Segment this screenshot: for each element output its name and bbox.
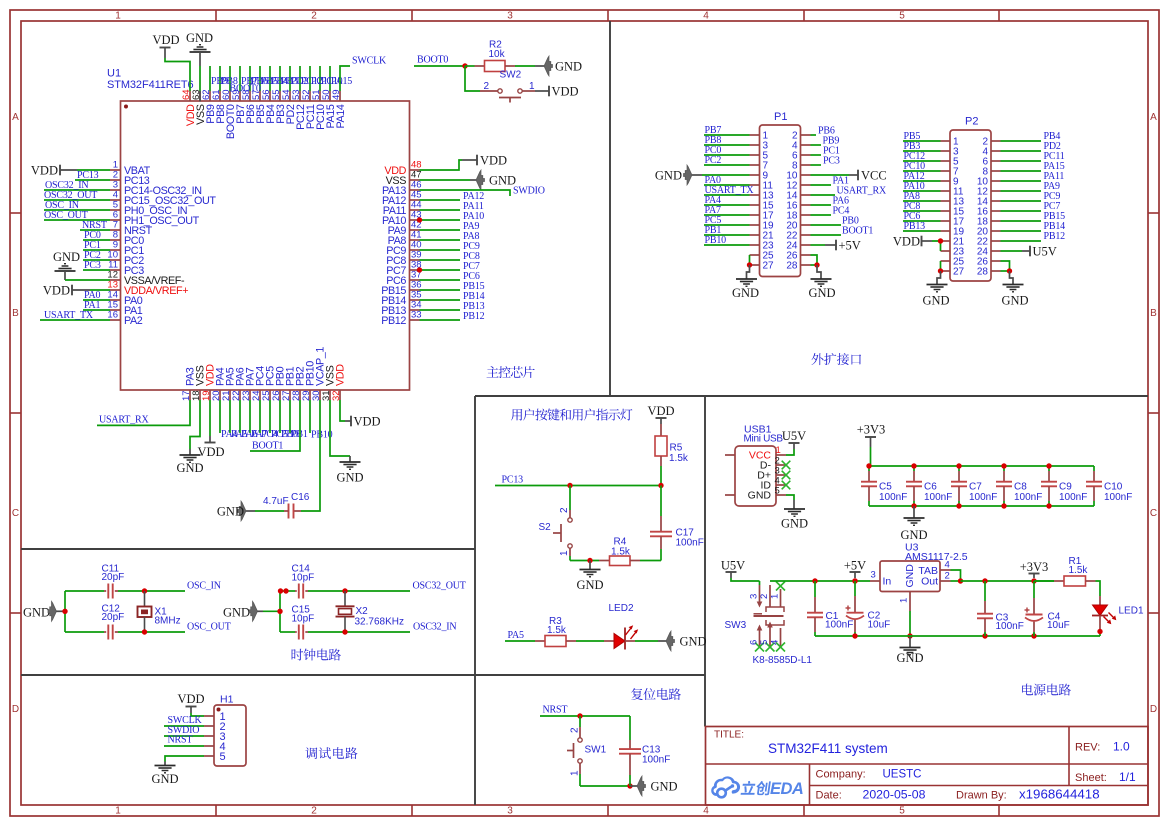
P1 left wires and net labels — [704, 125, 754, 246]
power port VDD at U1 pin32 — [340, 400, 381, 429]
resistor R1 1.5k — [1034, 556, 1096, 586]
svg-text:5: 5 — [220, 751, 226, 763]
svg-text:GND: GND — [223, 606, 250, 620]
net label OSC_OUT / wire — [44, 210, 110, 221]
wire TAB to Out — [951, 570, 964, 584]
svg-text:100nF: 100nF — [924, 492, 952, 503]
svg-text:R5: R5 — [670, 443, 683, 454]
svg-text:VDD: VDD — [335, 364, 347, 386]
P2 right wires and net labels — [1001, 131, 1066, 242]
svg-text:1: 1 — [770, 594, 781, 599]
wire GND bottom rail — [815, 633, 1100, 638]
svg-text:PC2: PC2 — [705, 155, 722, 166]
svg-text:GND: GND — [23, 606, 50, 620]
capacitor C12 20pF — [65, 604, 124, 640]
wire VDD pin1 — [77, 169, 110, 171]
wire SW1 to GND rail — [580, 783, 633, 788]
net label PA1 / wire — [83, 300, 110, 311]
ground symbol below S2 — [576, 561, 603, 593]
op-amp U1 STM32F411RET6 main MCU body — [107, 68, 410, 391]
svg-text:VDD: VDD — [31, 164, 58, 178]
net label OSC32_IN / wire — [44, 180, 110, 191]
ground flag right of R2 — [544, 56, 582, 76]
svg-text:49: 49 — [331, 89, 342, 100]
svg-text:VDD: VDD — [480, 154, 507, 168]
net label PA0 / wire — [83, 290, 110, 301]
svg-text:3: 3 — [871, 570, 876, 581]
svg-text:K8-8585D-L1: K8-8585D-L1 — [753, 655, 813, 666]
svg-text:+3V3: +3V3 — [857, 423, 886, 437]
ground symbol below H1 — [151, 762, 178, 787]
wire P2 pins 25/27 to ground — [938, 261, 943, 274]
wire R3 to LED2 — [576, 640, 604, 642]
svg-text:D: D — [12, 704, 19, 715]
svg-text:1.0: 1.0 — [1113, 740, 1130, 754]
svg-text:A: A — [12, 112, 19, 123]
svg-text:NRST: NRST — [543, 705, 568, 716]
net label SWDIO / wire H1 pin3 — [164, 725, 204, 736]
svg-text:+5V: +5V — [839, 239, 861, 253]
svg-text:U5V: U5V — [1033, 245, 1057, 259]
svg-text:100nF: 100nF — [969, 492, 997, 503]
svg-text:1: 1 — [529, 81, 535, 92]
svg-text:3: 3 — [749, 594, 760, 599]
svg-text:GND: GND — [576, 578, 603, 592]
ground symbol below C6 — [900, 506, 927, 542]
wire C11 to X1 / net label OSC_IN — [118, 581, 221, 594]
svg-text:STM32F411RET6: STM32F411RET6 — [107, 79, 194, 91]
svg-text:8MHz: 8MHz — [155, 616, 181, 627]
svg-text:5: 5 — [759, 640, 770, 645]
svg-text:1.5k: 1.5k — [1069, 565, 1089, 576]
svg-text:PC3: PC3 — [823, 156, 840, 167]
net label OSC_IN / wire — [44, 200, 110, 211]
regulator U3 AMS1117-2.5 — [870, 542, 968, 612]
U1 top pins 64-49 — [181, 89, 347, 139]
junction on PA10 pin43 — [417, 217, 422, 222]
ground symbol below U3 — [896, 636, 923, 665]
svg-text:2: 2 — [759, 594, 770, 599]
svg-text:GND: GND — [176, 461, 203, 475]
power port VDD at P2 pins 21/23 — [893, 235, 943, 252]
svg-text:OSC32_IN: OSC32_IN — [413, 622, 456, 633]
wire X1 left rail — [62, 591, 67, 632]
ground symbol at U1 pin31 — [330, 400, 364, 485]
svg-text:C8: C8 — [1014, 482, 1027, 493]
power port VDD at U1 pin64 — [152, 33, 179, 58]
svg-text:OSC_IN: OSC_IN — [187, 581, 221, 592]
no-connect X marks on USB1 pins 2-4 — [782, 461, 791, 490]
svg-text:1/1: 1/1 — [1119, 770, 1136, 784]
connector H1 debug header — [204, 694, 246, 767]
power port VDD at H1 pin1 — [177, 692, 204, 713]
section title 外扩接口 — [812, 353, 862, 365]
svg-text:16: 16 — [107, 310, 118, 321]
svg-text:10uF: 10uF — [868, 620, 891, 631]
svg-text:B: B — [12, 308, 19, 319]
capacitor C4 10uF polarized — [1025, 581, 1070, 636]
svg-text:2: 2 — [311, 805, 317, 816]
svg-text:PA15: PA15 — [331, 76, 352, 87]
ground flag at C16 — [217, 501, 255, 521]
svg-text:TITLE:: TITLE: — [714, 730, 744, 741]
svg-text:28: 28 — [786, 261, 798, 272]
svg-text:STM32F411 system: STM32F411 system — [768, 741, 888, 756]
svg-text:2020-05-08: 2020-05-08 — [863, 788, 926, 802]
ground flag right of C13 — [630, 776, 678, 796]
net label PC13 / wire — [75, 170, 110, 181]
svg-text:PA2: PA2 — [124, 315, 143, 327]
capacitor C10 100nF — [1086, 471, 1132, 503]
svg-text:NRST: NRST — [168, 735, 193, 746]
ground symbol at U1 pin12 — [53, 250, 80, 280]
svg-text:GND: GND — [904, 564, 916, 588]
svg-text:C7: C7 — [969, 482, 982, 493]
crystal X1 8MHz — [138, 591, 181, 632]
svg-text:10pF: 10pF — [292, 573, 315, 584]
svg-text:U1: U1 — [107, 68, 121, 80]
switch SW3 K8-8585D-L1 power switch — [725, 581, 813, 666]
capacitor C9 100nF — [1041, 466, 1087, 506]
net label PA5 / wire — [505, 630, 535, 641]
svg-text:GND: GND — [781, 517, 808, 531]
svg-text:REV:: REV: — [1075, 742, 1100, 754]
ground flag at U1 pin47 — [420, 170, 517, 190]
ground flag right of LED2 — [666, 631, 707, 651]
svg-text:Sheet:: Sheet: — [1075, 772, 1107, 784]
power port VDD at U1 pin48 — [420, 154, 508, 171]
svg-text:2: 2 — [570, 727, 581, 733]
svg-text:10pF: 10pF — [292, 614, 315, 625]
svg-text:C9: C9 — [1059, 482, 1072, 493]
net label BOOT1 / wire pin28 — [250, 400, 300, 452]
svg-text:+5V: +5V — [844, 559, 866, 573]
U1 left pins 1-16 — [107, 160, 216, 328]
svg-text:Mini USB: Mini USB — [744, 434, 784, 445]
svg-text:C5: C5 — [879, 482, 892, 493]
connector P1 body — [760, 111, 801, 277]
power port U5V at P2 pin24 — [1001, 245, 1057, 259]
svg-text:VDD: VDD — [177, 692, 204, 706]
crystal X2 32.768KHz — [336, 591, 404, 632]
ground symbol below P2 right — [1001, 271, 1028, 308]
svg-text:C16: C16 — [291, 492, 310, 503]
svg-text:VDD: VDD — [647, 404, 674, 418]
svg-text:GND: GND — [680, 635, 707, 649]
section title 电源电路 — [1022, 684, 1071, 696]
svg-text:EDA: EDA — [770, 780, 803, 798]
ground symbol below P1 right — [808, 265, 835, 300]
svg-text:2: 2 — [484, 81, 490, 92]
svg-text:Out: Out — [921, 576, 938, 588]
junction on PC7 pin38 — [417, 267, 422, 272]
svg-text:4: 4 — [945, 560, 950, 571]
svg-text:VDD: VDD — [354, 415, 381, 429]
capacitor C14 10pF — [278, 564, 314, 599]
wire R4 to C17 — [640, 560, 661, 562]
wires U1 top pins 62-50 — [210, 66, 330, 91]
connector P2 body — [950, 116, 991, 282]
LED1 red power indicator — [1092, 596, 1144, 629]
capacitor C7 100nF — [951, 466, 997, 506]
svg-text:100nF: 100nF — [879, 492, 907, 503]
svg-text:1.5k: 1.5k — [547, 625, 567, 636]
resistor R3 1.5k — [535, 616, 576, 647]
svg-text:100nF: 100nF — [996, 621, 1024, 632]
svg-text:2: 2 — [311, 10, 317, 21]
svg-text:10k: 10k — [489, 49, 506, 60]
svg-text:2: 2 — [945, 571, 950, 582]
svg-text:3: 3 — [507, 10, 513, 21]
svg-text:A: A — [1150, 112, 1157, 123]
svg-text:32: 32 — [331, 390, 342, 401]
P1 right wires and net labels — [811, 126, 887, 237]
svg-text:1: 1 — [115, 805, 121, 816]
wire VSS pin63 — [199, 66, 201, 102]
section title 复位电路 — [631, 688, 681, 700]
capacitor C15 10pF — [280, 605, 314, 640]
svg-text:VDD: VDD — [197, 445, 224, 459]
svg-text:100nF: 100nF — [1104, 492, 1132, 503]
node BOOT0 junction — [462, 63, 467, 68]
svg-text:C: C — [1150, 508, 1157, 519]
svg-text:PB10: PB10 — [705, 235, 727, 246]
resistor R4 1.5k — [599, 537, 640, 566]
svg-text:GND: GND — [151, 772, 178, 786]
P2 left wires and net labels — [903, 131, 941, 232]
resistor R2 10k — [465, 40, 515, 72]
svg-text:32.768KHz: 32.768KHz — [355, 617, 404, 628]
U1 bottom pins 17-32 — [181, 347, 347, 401]
svg-text:C6: C6 — [924, 482, 937, 493]
section title 主控芯片 — [487, 366, 535, 378]
svg-text:5: 5 — [775, 486, 780, 497]
svg-text:SW2: SW2 — [500, 70, 522, 81]
ground flag left of X1 group — [23, 601, 65, 621]
wire C14 to X2 / net label OSC32_OUT — [308, 581, 466, 594]
wire VSSA pin12 — [65, 279, 110, 281]
svg-text:4.7uF: 4.7uF — [263, 496, 289, 507]
wire P1 pins 25/27 to ground — [747, 255, 752, 268]
svg-text:OSC_OUT: OSC_OUT — [187, 622, 231, 633]
wire U3 GND pin to ground — [907, 611, 912, 639]
svg-text:GND: GND — [900, 528, 927, 542]
svg-text:GND: GND — [1001, 294, 1028, 308]
ground flag at P1 pin9 — [655, 165, 750, 185]
node junctions on PC13 rail — [567, 483, 663, 488]
svg-text:100nF: 100nF — [1014, 492, 1042, 503]
svg-text:100nF: 100nF — [676, 538, 704, 549]
power port +3V3 at U3 output — [1020, 560, 1049, 578]
svg-text:1: 1 — [899, 598, 910, 603]
svg-text:PA5: PA5 — [508, 630, 524, 641]
P1 pins and numbers — [750, 131, 811, 272]
svg-text:Drawn By:: Drawn By: — [956, 790, 1007, 802]
net label PC13 / horizontal wire — [495, 475, 661, 486]
EasyEDA 立创EDA logo — [711, 776, 803, 798]
svg-text:1: 1 — [559, 550, 570, 556]
section title 用户按键和用户指示灯 — [511, 409, 632, 421]
svg-text:GND: GND — [655, 169, 682, 183]
svg-text:1.5k: 1.5k — [669, 453, 689, 464]
svg-text:GND: GND — [53, 250, 80, 264]
net label OSC32_OUT / wire — [44, 190, 110, 201]
svg-text:SWCLK: SWCLK — [352, 56, 387, 67]
svg-text:VDD: VDD — [552, 85, 579, 99]
capacitor C16 4.7uF on VCAP_1 pin30 — [255, 400, 320, 519]
wire LED1 to GND rail — [1097, 629, 1102, 636]
svg-text:6: 6 — [749, 640, 760, 645]
node NRST junction — [577, 713, 582, 718]
svg-text:1: 1 — [115, 10, 121, 21]
wire R1 to LED1 — [1096, 581, 1101, 596]
net label NRST / wire — [540, 705, 630, 717]
svg-text:PB13: PB13 — [904, 221, 926, 232]
svg-text:x1968644418: x1968644418 — [1019, 787, 1100, 802]
capacitor C1 100nF — [807, 581, 853, 636]
svg-text:1: 1 — [570, 770, 581, 776]
net label NRST / wire — [80, 220, 110, 231]
svg-text:GND: GND — [336, 471, 363, 485]
svg-text:In: In — [883, 576, 892, 588]
svg-text:PC13: PC13 — [502, 475, 524, 486]
svg-text:PA14: PA14 — [335, 104, 347, 128]
svg-text:5: 5 — [899, 10, 905, 21]
svg-text:1.5k: 1.5k — [611, 547, 631, 558]
resistor R5 1.5k — [655, 424, 689, 466]
svg-text:100nF: 100nF — [825, 620, 853, 631]
net label NRST / wire H1 pin4 — [164, 735, 204, 747]
junction dots on +3V3 rail — [866, 463, 1051, 508]
svg-text:GND: GND — [186, 31, 213, 45]
wire LED2 to GND — [635, 640, 666, 642]
power port VCC at P1 pin10 — [811, 169, 887, 183]
svg-text:20pF: 20pF — [102, 612, 125, 623]
ground symbol below P2 left — [922, 271, 949, 308]
svg-text:100nF: 100nF — [642, 755, 670, 766]
svg-text:1: 1 — [776, 445, 781, 456]
wire +3V3 decoupling rail — [869, 447, 1094, 506]
net label SWDIO / wire pin46 — [420, 186, 545, 197]
switch SW1 reset button — [567, 716, 607, 786]
svg-text:U5V: U5V — [721, 559, 745, 573]
svg-text:+3V3: +3V3 — [1020, 560, 1049, 574]
svg-text:B: B — [1150, 308, 1157, 319]
ground symbol below P1 left — [732, 265, 759, 300]
svg-text:VDD: VDD — [152, 33, 179, 47]
svg-text:27: 27 — [953, 267, 965, 278]
title block texts — [714, 730, 1136, 802]
wire X2 left rail — [263, 591, 283, 632]
svg-text:GND: GND — [555, 60, 582, 74]
power port U5V at SW3 input — [721, 559, 745, 579]
svg-text:2: 2 — [559, 507, 570, 513]
wire H1 pin5 to ground — [165, 756, 204, 762]
power port U5V at USB1 pin1 — [782, 429, 806, 455]
capacitor C13 100nF — [619, 716, 670, 786]
svg-text:4: 4 — [770, 640, 781, 645]
svg-text:GND: GND — [808, 286, 835, 300]
svg-text:S2: S2 — [539, 522, 552, 533]
svg-text:28: 28 — [977, 267, 989, 278]
capacitor C3 100nF — [977, 581, 1024, 636]
section title 时钟电路 — [292, 649, 341, 661]
ground symbol at U1 pin18 — [176, 400, 203, 475]
section title 调试电路 — [305, 747, 357, 759]
power port VDD at U1 pin1 — [31, 164, 77, 178]
net label SWCLK / wire H1 pin2 — [164, 715, 204, 726]
svg-text:USART_RX: USART_RX — [99, 415, 149, 426]
net label USART_TX / wire — [40, 310, 110, 321]
LED2 red indicator — [604, 603, 638, 650]
svg-text:27: 27 — [763, 261, 775, 272]
svg-text:VCC: VCC — [861, 169, 887, 183]
svg-text:H1: H1 — [220, 694, 234, 706]
svg-text:Date:: Date: — [816, 790, 842, 802]
capacitor C8 100nF — [996, 466, 1042, 506]
svg-text:GND: GND — [732, 286, 759, 300]
switch SW2 (BOOT0 select) — [465, 66, 535, 103]
svg-text:SW1: SW1 — [585, 745, 607, 756]
wire +5V rail SW3 to U3 In — [770, 578, 870, 583]
capacitor C6 100nF — [906, 466, 952, 506]
wire R5 to PC13 rail — [660, 466, 662, 486]
svg-text:P2: P2 — [965, 116, 978, 128]
power port +5V at P1 pin24 — [811, 239, 861, 253]
svg-text:20pF: 20pF — [102, 572, 125, 583]
svg-text:C: C — [12, 508, 19, 519]
svg-text:PC3: PC3 — [84, 260, 101, 271]
wire P1 pins 26/28 to ground — [811, 255, 820, 268]
svg-text:GND: GND — [922, 294, 949, 308]
capacitor C11 20pF — [65, 564, 124, 599]
wire C15 to X2 / net label OSC32_IN — [308, 622, 456, 635]
wire VDD pin64 — [165, 58, 190, 91]
svg-text:5: 5 — [899, 805, 905, 816]
wire +3V3 output rail — [961, 578, 1055, 583]
svg-text:UESTC: UESTC — [883, 769, 922, 781]
wire P2 pins 26/28 to ground — [1001, 261, 1013, 274]
wire R2 to GND — [515, 65, 544, 67]
svg-text:PB12: PB12 — [381, 315, 406, 327]
wire VDD to H1 pin1 — [191, 713, 204, 716]
svg-text:BOOT0: BOOT0 — [230, 84, 261, 95]
power port +3V3 above C5 rail — [857, 423, 886, 448]
power port +5V at U3 input — [844, 559, 866, 584]
power port VDD at U1 pin19 — [197, 400, 224, 459]
svg-text:LED2: LED2 — [609, 603, 634, 614]
svg-text:GND: GND — [748, 490, 772, 502]
svg-text:USART_TX: USART_TX — [44, 310, 94, 321]
net label PC1 / wire — [83, 240, 110, 251]
net label PC3 / wire — [83, 260, 110, 271]
svg-text:SW3: SW3 — [725, 620, 747, 631]
svg-text:BOOT0: BOOT0 — [417, 55, 448, 66]
svg-text:X2: X2 — [356, 606, 369, 617]
net label SWCLK / wire from pin49 — [340, 56, 387, 92]
power port VDD at SW2 pin1 — [535, 85, 579, 99]
svg-text:BOOT1: BOOT1 — [842, 226, 873, 237]
switch S2 user button — [539, 486, 573, 561]
svg-text:33: 33 — [411, 310, 422, 321]
net label BOOT0 / wire — [414, 55, 465, 67]
capacitor C2 10uF polarized — [846, 581, 891, 636]
U1 right pins 48-33 — [381, 160, 421, 328]
capacitor C5 100nF — [861, 471, 907, 503]
svg-text:GND: GND — [651, 780, 678, 794]
wire U5V to SW3 — [731, 578, 760, 581]
power port VDD above R5 — [647, 404, 674, 424]
